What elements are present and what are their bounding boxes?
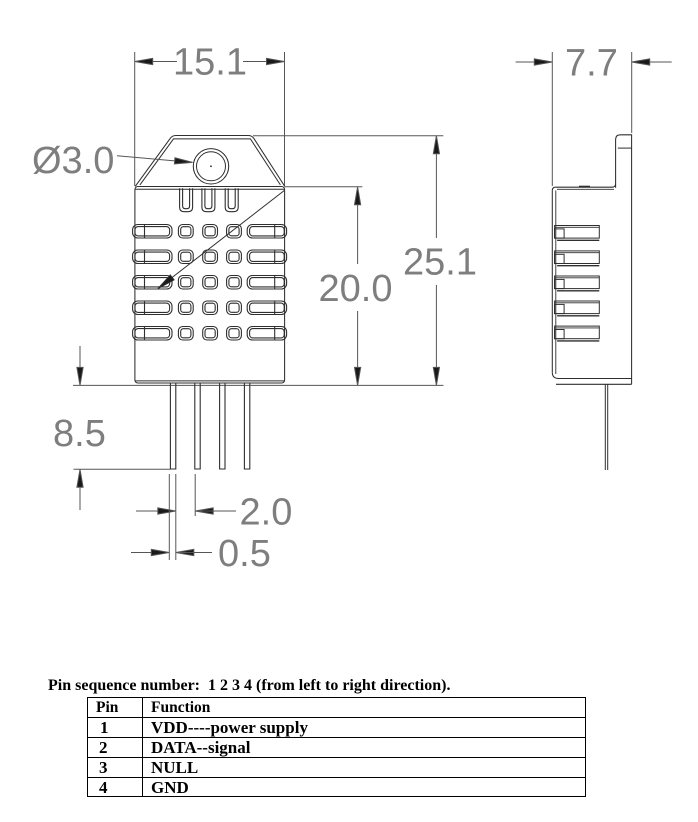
vent channel 2 — [202, 188, 215, 211]
dimension 15.1 — [135, 42, 285, 187]
table header row — [88, 698, 585, 718]
grill row 5 — [133, 327, 287, 341]
side fin 2 — [555, 251, 600, 266]
hole — [193, 149, 228, 184]
dimension 25.1 — [253, 136, 477, 386]
grill row 2 — [133, 250, 287, 264]
dimension 8.5 — [53, 346, 106, 510]
table row pin 1 — [88, 718, 585, 738]
svg-text:0.5: 0.5 — [218, 533, 271, 575]
baseline bottom — [73, 384, 444, 386]
svg-text:15.1: 15.1 — [173, 42, 247, 84]
grill row 3 — [133, 276, 287, 290]
grill row 4 — [133, 301, 287, 315]
dimension 0.5 — [131, 474, 271, 575]
pin bottom baseline — [74, 468, 171, 470]
table row pin 4 — [88, 778, 585, 798]
vent channel 3 — [225, 188, 238, 211]
svg-text:2.0: 2.0 — [240, 492, 293, 534]
pin 1 — [170, 384, 175, 470]
table row pin 2 — [88, 738, 585, 758]
diagonal leader arrow — [156, 191, 284, 291]
side fin 3 — [555, 276, 600, 291]
svg-text:8.5: 8.5 — [53, 413, 106, 455]
svg-text:7.7: 7.7 — [565, 43, 618, 85]
dimension 2.0 — [136, 474, 292, 534]
pin function table — [87, 697, 586, 797]
vent channel 1 — [180, 188, 193, 211]
pin 2 — [195, 384, 200, 470]
cap outline — [135, 136, 285, 187]
side fin 4 — [555, 301, 600, 316]
pin 4 — [244, 384, 249, 470]
svg-text:Ø3.0: Ø3.0 — [32, 140, 114, 182]
side fin 5 — [555, 326, 600, 341]
svg-text:25.1: 25.1 — [403, 242, 477, 284]
table row pin 3 — [88, 758, 585, 778]
svg-text:20.0: 20.0 — [319, 268, 393, 310]
leader Ø3.0 — [32, 140, 193, 182]
side fin 1 — [555, 226, 600, 241]
grill row 1 — [133, 225, 287, 239]
dimension 7.7 — [516, 43, 672, 187]
caption pin sequence — [48, 677, 688, 695]
side wire — [605, 384, 607, 470]
dimension 20.0 — [285, 187, 393, 386]
body outline — [135, 187, 285, 384]
side body outline — [552, 135, 631, 384]
pin 3 — [220, 384, 225, 470]
